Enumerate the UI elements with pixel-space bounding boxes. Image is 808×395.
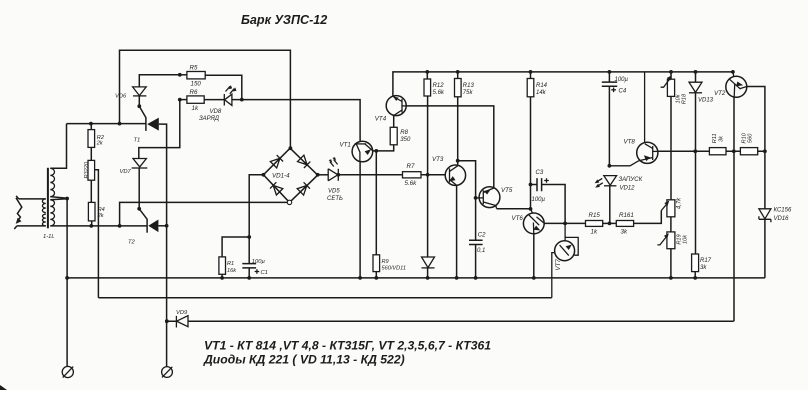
resistor R7: [403, 172, 422, 178]
mains input arrow: [16, 198, 22, 224]
wire VT5 emitter row: [497, 208, 531, 210]
svg-text:5.6k: 5.6k: [405, 180, 418, 187]
node bridge left: [262, 173, 266, 177]
wire R3-R4: [90, 180, 92, 202]
terminal 2: [162, 367, 173, 378]
svg-text:VD7: VD7: [120, 169, 132, 175]
svg-text:VD9: VD9: [176, 310, 188, 316]
transistor VT6: [523, 209, 544, 234]
resistor R15: [586, 221, 603, 227]
wire R6 to VD8: [204, 99, 224, 101]
svg-text:R12: R12: [433, 83, 445, 89]
node C1 branch: [247, 235, 251, 239]
svg-text:1-1L: 1-1L: [43, 234, 55, 240]
wire center tap down to ground: [66, 199, 68, 278]
resistor R161: [616, 221, 633, 227]
corner mark bottom-left: [0, 385, 7, 390]
wire transformer bottom rail to T2: [50, 225, 147, 227]
node C4 rail: [608, 70, 612, 74]
trimmer R19: [657, 232, 675, 249]
svg-text:VT2: VT2: [714, 90, 726, 97]
wire R18 bottom to trimmer: [670, 96, 672, 199]
zener diode VD16 КС156: [759, 209, 771, 278]
resistor R5: [187, 72, 205, 79]
wire T2 anode: [158, 225, 166, 227]
node T2 anode: [165, 224, 169, 228]
wire R18 top: [670, 72, 672, 79]
node R1 ground: [220, 276, 224, 280]
svg-text:VD16: VD16: [774, 216, 790, 222]
node VT8 emitter / C4: [608, 164, 612, 168]
node VT3 collector: [456, 159, 460, 163]
wire R9 column: [375, 151, 377, 255]
wire down to terminal 1: [66, 278, 68, 367]
svg-text:T1: T1: [134, 138, 141, 144]
wire T1 anode to column: [159, 124, 167, 367]
diode VD7: [132, 159, 148, 169]
ground rail: [67, 277, 765, 279]
wire VT6 emitter: [533, 234, 535, 278]
wire R161 right to trimmer: [634, 211, 662, 224]
node VD12 bottom: [608, 222, 612, 226]
wire input bottom: [14, 226, 46, 229]
svg-text:КС156: КС156: [774, 208, 792, 214]
node R18 rail: [669, 70, 673, 74]
svg-text:R6: R6: [190, 89, 198, 96]
svg-text:VD8: VD8: [210, 109, 222, 115]
diode VD11: [422, 257, 435, 268]
svg-text:T2: T2: [128, 240, 136, 246]
wire top row y=123.6: [67, 123, 146, 125]
wire R5 left: [180, 74, 187, 76]
wire R13 bottom to VT3: [457, 97, 459, 166]
resistor R4: [88, 202, 95, 221]
wire R5 right: [205, 75, 242, 99]
node charge row: [240, 98, 244, 102]
svg-text:R7: R7: [407, 163, 415, 170]
wire VT6 collector row: [544, 222, 585, 224]
wire R13 top: [457, 72, 459, 79]
wire VD13 top: [695, 72, 697, 82]
wire R12 top: [426, 72, 428, 79]
wire branch to R1: [222, 237, 249, 257]
wire R6 left lead: [180, 99, 187, 101]
svg-text:R9: R9: [382, 259, 389, 265]
svg-text:VD13: VD13: [698, 98, 714, 104]
svg-text:100µ: 100µ: [532, 197, 546, 203]
node R12 rail: [425, 70, 429, 74]
resistor R6: [187, 96, 204, 103]
transformer core: [47, 168, 49, 229]
thyristor T2: [147, 219, 158, 233]
wire VT3 emitter to ground: [456, 185, 458, 278]
transistor VT5: [476, 187, 500, 209]
node R11 left: [693, 149, 697, 153]
svg-text:560/VD11: 560/VD11: [382, 266, 406, 272]
terminal 1: [62, 366, 73, 377]
wire T1 gate: [139, 106, 146, 117]
wire R17 bottom: [694, 272, 696, 278]
svg-text:VT6: VT6: [512, 215, 524, 222]
wire R2 top lead: [90, 124, 92, 130]
svg-text:R19: R19: [677, 234, 683, 244]
wire R19 bottom: [670, 249, 672, 278]
svg-text:1k: 1k: [192, 105, 199, 112]
LED VD12 ЗАПУСК: [595, 176, 617, 188]
resistor R12: [424, 79, 431, 96]
node R6 left: [178, 98, 182, 102]
wire secondary top to R2 rail: [50, 124, 66, 169]
node VT2 base rail end: [731, 70, 735, 74]
svg-text:1k: 1k: [591, 229, 598, 236]
svg-text:3k: 3k: [700, 265, 707, 271]
wire R9 bottom: [375, 272, 377, 278]
wire VD5 to VT3 row: [338, 174, 445, 176]
node bridge top: [289, 146, 293, 150]
bridge rectifier VD1-4: [263, 148, 317, 204]
wire T2 gate: [139, 209, 147, 219]
node R14 rail: [529, 70, 533, 74]
resistor R9: [373, 255, 380, 272]
LED VD5 СЕТЬ: [318, 157, 339, 181]
svg-text:150: 150: [191, 81, 202, 88]
LED VD8 ЗАРЯД: [224, 85, 236, 106]
svg-text:560: 560: [748, 133, 754, 143]
svg-text:C4: C4: [619, 89, 627, 95]
wire R14 top: [530, 72, 532, 79]
svg-text:C3: C3: [536, 170, 544, 176]
svg-text:VT1 - КТ 814 ,VT 4,8 - КТ315Г,: VT1 - КТ 814 ,VT 4,8 - КТ315Г, VT 2,3,5,…: [204, 339, 491, 353]
transistor VT2: [726, 72, 747, 97]
wire trimmer to R19: [670, 217, 672, 232]
svg-text:VD12: VD12: [620, 185, 636, 191]
node R4 bottom: [89, 224, 93, 228]
node C1 ground: [247, 276, 251, 280]
svg-text:75k: 75k: [463, 90, 474, 96]
wire input top: [16, 196, 46, 199]
svg-text:Диоды КД 221 ( VD 11,13 - КД 5: Диоды КД 221 ( VD 11,13 - КД 522): [203, 353, 405, 367]
trimmer 4,7k: [661, 200, 675, 217]
wire bridge bottom to AC return: [120, 202, 288, 226]
node R17 ground: [693, 276, 697, 280]
svg-text:R161: R161: [619, 212, 634, 219]
node VT6 base: [529, 207, 533, 211]
svg-text:СЕТЬ: СЕТЬ: [327, 196, 343, 202]
svg-text:R5: R5: [190, 64, 198, 71]
wire VD12 bottom: [609, 186, 611, 224]
feedback wire R3 wiper to VT7: [98, 297, 551, 299]
wire VT3 collector branch to VT5 base: [458, 161, 476, 241]
svg-text:R13: R13: [463, 83, 475, 89]
capacitor C3: [531, 178, 566, 223]
wire R15 to R161: [603, 222, 617, 224]
wire VT4 base row: [406, 106, 494, 188]
diode VD13: [689, 82, 702, 93]
wire VT4 top to rail: [393, 72, 733, 97]
svg-text:100µ: 100µ: [615, 77, 629, 83]
svg-text:VT5: VT5: [501, 187, 513, 194]
svg-text:3k: 3k: [621, 229, 628, 236]
wire R11 row: [658, 150, 765, 152]
wire VT2 right to zener column: [747, 87, 765, 209]
node VD11 ground: [426, 276, 430, 280]
resistor R3 220: [88, 160, 95, 180]
node R9 ground: [374, 276, 378, 280]
potentiometer R18: [661, 75, 675, 96]
transformer primary winding upper: [42, 199, 45, 213]
node VT5 base tee: [474, 196, 478, 200]
node R5/R6 left column top: [178, 73, 182, 77]
svg-text:R18: R18: [682, 93, 688, 104]
node bridge right: [316, 173, 320, 177]
svg-text:14k: 14k: [536, 90, 547, 96]
node C2 ground: [474, 276, 478, 280]
wire R3 wiper tap: [95, 170, 99, 298]
wire top rail: [120, 50, 291, 148]
node R12 base row: [426, 173, 430, 177]
svg-text:VD1-4: VD1-4: [272, 173, 290, 180]
transistor VT1: [352, 141, 373, 162]
wire VT3 base: [421, 174, 445, 176]
node center tap: [65, 197, 69, 201]
node VT1 ground: [358, 276, 362, 280]
svg-text:Барк УЗПС-12: Барк УЗПС-12: [241, 13, 327, 27]
diode VD6: [133, 87, 147, 96]
svg-text:10k: 10k: [683, 234, 689, 244]
node T2 gate bend: [137, 207, 141, 211]
resistor R1: [219, 257, 226, 274]
resistor R10 560: [740, 148, 757, 155]
resistor R17: [692, 254, 699, 272]
node VT6 ground: [532, 276, 536, 280]
transformer primary winding lower: [42, 214, 45, 226]
svg-text:ЗАПУСК: ЗАПУСК: [619, 177, 643, 183]
svg-text:R11: R11: [712, 133, 718, 143]
transistor VT4: [386, 96, 406, 116]
node VT7 top: [563, 222, 567, 226]
resistor R8: [390, 127, 397, 145]
resistor R11: [709, 148, 726, 155]
svg-text:R8: R8: [400, 130, 408, 136]
svg-text:C2: C2: [478, 233, 486, 239]
wire VD9 row: [167, 320, 734, 322]
svg-text:VT3: VT3: [432, 156, 444, 163]
node T1 gate bend: [137, 104, 141, 108]
svg-text:VD6: VD6: [115, 94, 127, 100]
wire VD6 bottom: [138, 96, 140, 106]
wire VD11 bottom: [427, 268, 429, 278]
svg-text:100µ: 100µ: [252, 259, 266, 265]
svg-text:2k: 2k: [96, 141, 104, 147]
node AC return: [118, 224, 122, 228]
svg-text:R14: R14: [536, 83, 548, 89]
svg-text:R15: R15: [589, 212, 601, 219]
node VT3 ground: [455, 276, 459, 280]
svg-text:ЗАРЯД: ЗАРЯД: [199, 116, 220, 122]
node ground left: [65, 276, 69, 280]
node VT1 base R8: [374, 149, 378, 153]
wire VD8 right / charge row: [232, 100, 360, 142]
node VD13 rail: [694, 70, 698, 74]
svg-text:VD5: VD5: [328, 189, 340, 195]
wire VT1 right to R8 bend: [373, 145, 394, 151]
svg-text:R3220: R3220: [84, 161, 90, 178]
wire center tap hooks: [50, 197, 67, 200]
node x119 top row: [118, 122, 122, 126]
wire VT2 bottom column: [733, 97, 735, 321]
diode VD9: [176, 316, 188, 328]
node VT2 column R11 row: [732, 149, 736, 153]
node R2 top: [89, 122, 93, 126]
wire VT1 bottom to ground: [359, 162, 361, 278]
svg-text:VT7: VT7: [555, 259, 562, 271]
svg-text:16k: 16k: [227, 268, 237, 274]
wire VD13 to R17 column: [695, 93, 697, 254]
node R10 right: [763, 149, 767, 153]
svg-text:0,1: 0,1: [477, 248, 485, 254]
node R13 rail: [456, 70, 460, 74]
svg-text:R1: R1: [227, 261, 234, 267]
svg-text:VT1: VT1: [340, 142, 351, 149]
wire R12 bottom column: [427, 96, 429, 257]
svg-text:5.6k: 5.6k: [433, 90, 445, 96]
capacitor C2: [469, 240, 483, 278]
node C3 left: [529, 183, 533, 187]
transistor VT8: [609, 72, 658, 166]
wire VD7 to T2 gate: [138, 168, 140, 209]
node VD9 anode: [165, 319, 169, 323]
resistor R13: [455, 79, 462, 97]
wire R14 bottom column: [530, 97, 532, 209]
wire R6 column to VD7: [139, 100, 180, 159]
wire bridge left to C1 column: [249, 175, 263, 264]
resistor R14: [527, 79, 534, 97]
svg-text:350: 350: [400, 137, 411, 143]
transistor VT3: [445, 165, 465, 185]
transformer secondary winding lower: [50, 200, 54, 226]
svg-text:VT4: VT4: [375, 115, 387, 122]
resistor R2: [88, 130, 95, 148]
svg-text:R17: R17: [700, 258, 712, 264]
wire VD6 top to R5 row: [139, 75, 180, 87]
wire R1 bottom: [221, 274, 223, 278]
wire R4 bottom: [91, 221, 93, 226]
wire R2-R3: [90, 147, 92, 160]
transformer secondary winding upper: [50, 168, 54, 196]
node R19 ground: [669, 276, 673, 280]
svg-text:4,7k: 4,7k: [677, 197, 683, 209]
node VD5 out: [336, 173, 340, 177]
capacitor C1: [242, 264, 259, 278]
svg-text:VT8: VT8: [624, 138, 636, 145]
wire R8 top to VT4: [393, 115, 395, 127]
thyristor T1: [146, 117, 159, 131]
svg-text:2k: 2k: [97, 213, 105, 219]
capacitor C4: [602, 72, 617, 166]
transistor VT7: [552, 223, 578, 297]
svg-text:C1: C1: [261, 270, 268, 276]
